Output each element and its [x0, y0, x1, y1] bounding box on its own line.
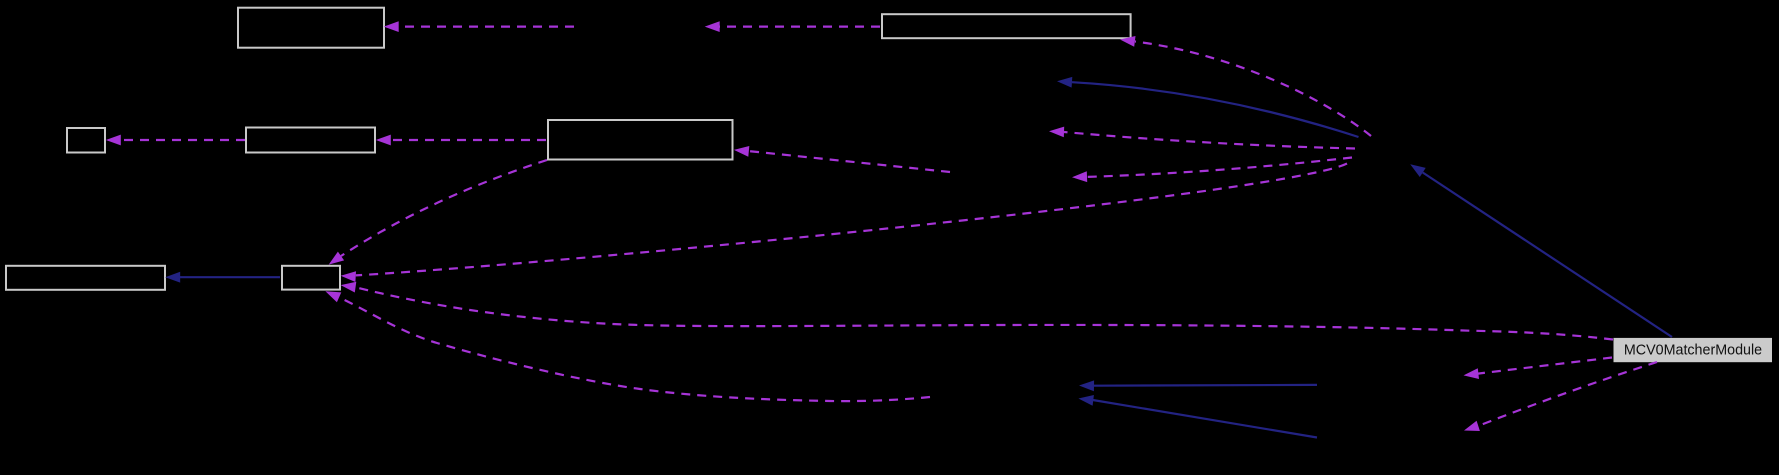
dashed edge: hidden node I2 to box E [734, 146, 950, 172]
node box C (small left empty box) [67, 128, 105, 153]
dashed edge: MCV0MatcherModule to hidden node Ia [1464, 358, 1613, 380]
node box B (top-middle empty class box) [882, 14, 1131, 38]
dashed edge: hidden hub I3 to box B bottom corner [1120, 36, 1371, 136]
dashed edge: MCV0MatcherModule to hidden node Ib [1464, 362, 1657, 431]
node box A (top-left empty class box) [238, 8, 384, 48]
dashed edge: box B to hidden node I1 [705, 21, 880, 32]
solid blue edge: hidden hub I3 to hidden node I4 [1057, 77, 1359, 137]
dashed edge: hidden node I1 to box A [384, 21, 574, 32]
solid blue edge: box G to box F [165, 272, 280, 283]
node box G (small hub box bottom-left) [282, 266, 340, 290]
dashed edge: hidden hub I3 to box G right edge [341, 164, 1347, 283]
dashed edge: hidden node I7 to box G bottom [325, 291, 930, 401]
solid blue edge: hidden node I10 to hidden node I8 [1078, 395, 1317, 438]
dashed edge: hidden hub I3 to hidden node I6 [1072, 158, 1352, 183]
node box D (second-row empty box) [246, 128, 375, 153]
node MCV0MatcherModule (grey filled current node) [1614, 338, 1773, 362]
dashed edge: box E to box D [376, 135, 546, 146]
dashed edge: hidden hub I3 to hidden node I5 [1049, 127, 1355, 149]
node box E (second-row large empty box) [548, 120, 733, 160]
node box F (bottom-left wide empty box) [6, 266, 165, 290]
solid blue edge: MCV0MatcherModule to hidden hub I3 [1410, 164, 1672, 337]
solid blue edge: hidden node I9 to hidden node I8 [1079, 380, 1317, 391]
dashed edge: box E bottom to box G top [329, 160, 547, 265]
dashed edge: MCV0MatcherModule to box G (long bottom curve) [341, 282, 1613, 340]
dashed edge: box D to box C [106, 135, 245, 146]
svg-text:MCV0MatcherModule: MCV0MatcherModule [1624, 343, 1762, 359]
